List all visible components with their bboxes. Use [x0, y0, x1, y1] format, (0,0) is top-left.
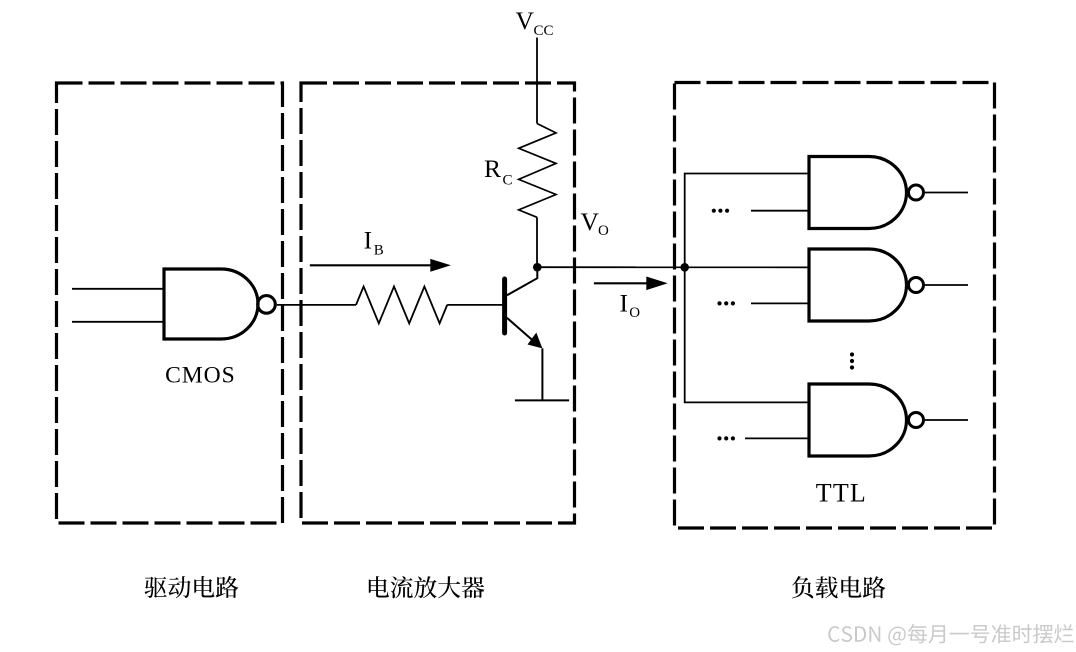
- svg-text:CMOS: CMOS: [165, 363, 235, 389]
- node: TTL input bus junction: [680, 263, 689, 272]
- wire: resistor RC to collector node: [536, 217, 538, 267]
- svg-text:I: I: [364, 226, 373, 255]
- label IB current arrow: [310, 264, 432, 266]
- wire: output VO to TTL bus: [537, 266, 809, 268]
- wire: G3 output: [925, 419, 968, 421]
- ground: [515, 399, 569, 401]
- wire: VCC to resistor RC: [536, 38, 538, 124]
- watermark CSDN @every-month-punctual-slacker: [828, 624, 1073, 645]
- node: collector output junction: [533, 263, 542, 272]
- TTL NAND gate G1 body: [809, 157, 907, 229]
- transistor Q1 emitter with arrow: [507, 318, 534, 342]
- wire: G2 lower input stub: [751, 302, 809, 304]
- TTL NAND gate G2 body: [809, 249, 907, 321]
- TTL gate G1 ellipsis input dots: [712, 209, 716, 213]
- label: drive circuit (Chinese): [145, 576, 239, 598]
- TTL NAND gate G3 bubble: [909, 413, 924, 428]
- svg-text:O: O: [598, 223, 609, 239]
- wire: G1 output: [925, 192, 968, 194]
- svg-text:I: I: [620, 289, 629, 318]
- svg-text:O: O: [629, 305, 640, 321]
- wire: bus up to gate 1: [685, 174, 809, 268]
- svg-text:C: C: [503, 173, 513, 189]
- TTL NAND gate G3 body: [809, 384, 907, 456]
- TTL gate G2 ellipsis input dots: [717, 301, 721, 305]
- wire: CMOS output to resistor RB: [277, 304, 356, 306]
- wire: CMOS gate input B: [72, 321, 164, 323]
- wire: G2 output: [925, 284, 968, 286]
- svg-text:R: R: [484, 154, 501, 183]
- dashed box: drive circuit (CMOS): [57, 83, 283, 523]
- wire: CMOS gate input A: [72, 288, 164, 290]
- wire: emitter to ground: [541, 348, 543, 400]
- TTL NAND gate G1 bubble: [909, 185, 924, 200]
- wire: G1 lower input stub: [751, 210, 809, 212]
- TTL gate G3 ellipsis input dots: [717, 436, 721, 440]
- dashed box: load circuit (TTL): [675, 83, 995, 529]
- transistor Q1 collector: [507, 267, 537, 295]
- vertical ellipsis between G2 and G3: [850, 352, 854, 356]
- CMOS NAND gate U1 output bubble: [258, 296, 276, 314]
- wire: G3 lower input stub: [745, 437, 809, 439]
- wire: resistor RB to transistor base: [447, 304, 502, 306]
- resistor RB (base resistor zigzag): [356, 287, 447, 324]
- svg-text:TTL: TTL: [816, 479, 867, 508]
- CMOS NAND gate U1 body: [164, 269, 258, 339]
- svg-text:V: V: [516, 6, 535, 35]
- label: current amplifier (Chinese): [369, 576, 485, 598]
- label IO current arrow: [594, 282, 648, 284]
- dashed box: current amplifier: [301, 83, 575, 523]
- label: load circuit (Chinese): [792, 576, 886, 598]
- TTL NAND gate G2 bubble: [909, 278, 924, 293]
- svg-text:B: B: [374, 243, 384, 259]
- resistor RC (collector resistor zigzag): [519, 124, 556, 218]
- transistor Q1 base bar: [502, 279, 507, 333]
- wire: bus down to gate 3: [685, 267, 809, 402]
- svg-text:CC: CC: [534, 23, 554, 39]
- svg-text:V: V: [581, 207, 600, 236]
